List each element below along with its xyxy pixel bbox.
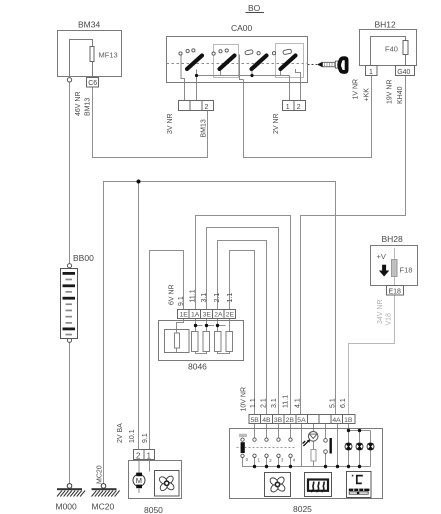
svg-text:F18: F18	[400, 266, 413, 275]
svg-text:3V NR: 3V NR	[167, 113, 174, 134]
svg-text:10V NR: 10V NR	[241, 387, 248, 412]
svg-text:1V NR: 1V NR	[353, 79, 360, 100]
svg-text:BM13: BM13	[85, 98, 92, 116]
svg-text:MF13: MF13	[99, 51, 118, 60]
svg-text:CA00: CA00	[231, 23, 253, 33]
svg-text:BB00: BB00	[73, 253, 94, 263]
svg-text:8025: 8025	[293, 504, 312, 514]
svg-text:G40: G40	[397, 69, 410, 76]
svg-text:5.1: 5.1	[330, 398, 337, 408]
svg-text:8046: 8046	[188, 362, 207, 372]
svg-text:2V NR: 2V NR	[273, 113, 280, 134]
svg-text:1.1: 1.1	[227, 293, 234, 303]
svg-text:9.1: 9.1	[142, 433, 149, 443]
svg-text:2A: 2A	[214, 312, 223, 319]
svg-text:2E: 2E	[226, 312, 235, 319]
svg-text:46V NR: 46V NR	[75, 91, 82, 116]
svg-text:11.1: 11.1	[283, 395, 290, 408]
svg-text:5A: 5A	[297, 417, 306, 424]
svg-text:M: M	[136, 476, 142, 485]
svg-text:4.1: 4.1	[295, 398, 302, 408]
svg-text:1.1: 1.1	[250, 398, 257, 408]
svg-text:1E: 1E	[180, 312, 189, 319]
svg-text:MC20: MC20	[96, 465, 103, 484]
svg-text:1: 1	[369, 69, 373, 76]
svg-text:BH28: BH28	[382, 234, 404, 244]
svg-text:19V NR: 19V NR	[387, 79, 394, 104]
svg-text:3.1: 3.1	[201, 293, 208, 303]
svg-text:1B: 1B	[344, 417, 353, 424]
svg-text:1: 1	[147, 451, 151, 460]
svg-text:4A: 4A	[332, 417, 341, 424]
svg-text:3.1: 3.1	[271, 398, 278, 408]
svg-text:10.1: 10.1	[129, 429, 136, 443]
svg-text:E18: E18	[389, 289, 402, 296]
svg-text:3E: 3E	[203, 312, 212, 319]
svg-text:BH12: BH12	[375, 20, 397, 30]
svg-text:1: 1	[286, 104, 290, 111]
svg-text:6.1: 6.1	[340, 398, 347, 408]
svg-text:1A: 1A	[191, 312, 200, 319]
svg-text:9.1: 9.1	[178, 296, 185, 306]
svg-text:+V: +V	[377, 252, 386, 261]
svg-text:V18: V18	[385, 313, 392, 326]
svg-text:6V NR: 6V NR	[169, 284, 176, 305]
svg-text:BM13: BM13	[201, 119, 208, 137]
svg-text:4B: 4B	[262, 417, 271, 424]
svg-text:BO: BO	[248, 3, 261, 13]
svg-text:11.1: 11.1	[190, 289, 197, 302]
svg-text:KH40: KH40	[397, 86, 404, 104]
svg-text:34V NR: 34V NR	[377, 299, 384, 324]
svg-text:BM34: BM34	[78, 20, 100, 30]
svg-text:2: 2	[136, 451, 140, 460]
svg-text:5B: 5B	[251, 417, 260, 424]
svg-text:2.1: 2.1	[214, 293, 221, 303]
svg-text:2.1: 2.1	[261, 398, 268, 408]
svg-text:8050: 8050	[144, 505, 163, 514]
svg-text:MC20: MC20	[92, 502, 115, 512]
svg-text:C6: C6	[88, 80, 97, 87]
svg-text:3B: 3B	[274, 417, 283, 424]
svg-text:F40: F40	[385, 45, 398, 54]
svg-text:2V BA: 2V BA	[117, 423, 124, 443]
svg-text:2: 2	[205, 104, 209, 111]
svg-text:2: 2	[297, 104, 301, 111]
svg-text:+KK: +KK	[364, 88, 371, 102]
svg-text:M000: M000	[56, 502, 78, 512]
svg-text:2B: 2B	[286, 417, 295, 424]
